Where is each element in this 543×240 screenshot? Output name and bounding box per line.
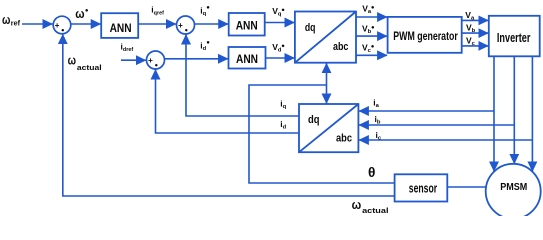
summer S3 (d-current error) [147,51,165,69]
svg-text:Vc●: Vc● [362,43,375,55]
svg-text:ic: ic [376,130,382,142]
svg-text:PMSM: PMSM [500,182,527,193]
svg-text:id: id [280,119,286,131]
svg-text:ωref: ωref [2,12,20,28]
wire theta riser down into U5 [326,85,328,104]
wire i_d* from summer S3 to ANN U3 [165,58,228,60]
svg-text:Vb: Vb [466,23,476,35]
svg-text:Va: Va [465,10,475,22]
svg-text:Inverter: Inverter [497,30,531,45]
summer S2 (q-current error) [177,16,195,34]
svg-text:ANN: ANN [110,21,132,35]
svg-text:+: + [55,21,60,30]
wire i_qref from ANN U1 to summer S2 [138,23,176,25]
wire i_q feedback from U5 to summer S2 [186,35,299,117]
svg-text:iqref: iqref [151,5,164,17]
wire sensor to PMSM [447,186,486,188]
wire i_c tap into abc-dq block U5 [359,139,533,141]
svg-text:+: + [148,56,153,65]
ANN U1 speed controller [101,13,138,38]
wire Vb from PWM generator to Inverter [462,32,489,34]
wire inverter phase B drop to PMSM [513,56,515,164]
ANN U2 q-axis controller [229,13,265,36]
svg-text:Va●: Va● [362,4,375,16]
wire i_b tap into abc-dq block U5 [359,124,514,126]
wire i_dref input [121,59,146,61]
wire Va from PWM generator to Inverter [462,19,489,21]
svg-text:ANN: ANN [236,52,258,66]
wire omega_actual feedback from sensor to summer S1 [63,34,395,196]
wire i_a tap into abc-dq block U5 [359,110,494,112]
wire Vq* from ANN U2 to dq-abc block U4 [265,22,295,24]
svg-text:ω●: ω● [75,6,89,21]
wire Vb* from U4 to PWM generator [356,35,387,37]
svg-text:PWM generator: PWM generator [393,29,458,43]
wire Vc from PWM generator to Inverter [462,45,489,47]
wire theta net from sensor [249,85,395,183]
svg-text:ib: ib [375,114,381,126]
abc to dq transform U5 [299,104,358,152]
svg-text:Vd●: Vd● [272,42,285,54]
svg-text:iq●: iq● [200,5,210,17]
PWM generator block [388,17,462,53]
wire theta riser up into U4 [326,63,328,85]
svg-text:sensor: sensor [409,182,437,196]
svg-text:abc: abc [333,41,348,53]
svg-text:Vq●: Vq● [272,6,285,18]
ANN U3 d-axis controller [229,47,266,69]
svg-text:dq: dq [305,22,316,34]
svg-text:ia: ia [373,98,379,110]
svg-text:id●: id● [200,40,210,52]
wire inverter phase C drop to PMSM [531,56,533,171]
svg-text:+: + [178,21,183,30]
svg-text:ωactual: ωactual [68,54,102,72]
svg-text:θ: θ [368,164,375,180]
wire omega* from summer S1 to ANN U1 [71,23,101,25]
wire inverter phase A drop to PMSM [493,56,495,171]
svg-text:ωactual: ωactual [352,198,389,215]
wire i_d feedback from U5 to summer S3 [156,70,300,134]
sensor block [395,174,448,201]
wire Va* from U4 to PWM generator [356,16,387,18]
dq to abc transform U4 [295,12,356,63]
svg-text:abc: abc [336,133,352,145]
Inverter block [489,16,540,57]
svg-text:ANN: ANN [236,18,258,32]
svg-text:Vc: Vc [466,36,476,48]
wire Vd* from ANN U3 to dq-abc block U4 [266,57,295,59]
svg-text:dq: dq [308,114,320,126]
svg-text:iq: iq [280,99,286,111]
svg-text:idref: idref [121,42,134,54]
svg-text:Vb●: Vb● [362,24,375,36]
wire omega_ref input [22,23,53,25]
PMSM machine [486,164,541,219]
wire i_q* from summer S2 to ANN U2 [195,23,229,25]
wire Vc* from U4 to PWM generator [356,54,387,56]
summer S1 (speed error) [53,16,71,34]
